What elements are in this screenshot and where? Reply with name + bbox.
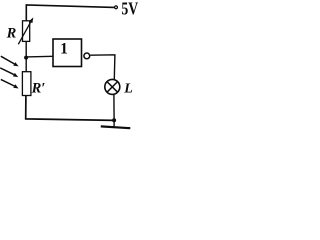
light arrow 1 into R' — [1, 56, 19, 66]
junction B — [112, 118, 116, 122]
wire: R' bottom lead and bottom rail to junction B — [26, 96, 114, 121]
arrow of variable resistor R — [18, 17, 33, 44]
terminal +5V — [115, 6, 118, 9]
svg-text:5V: 5V — [121, 0, 138, 18]
light arrow 3 into R' — [1, 79, 19, 88]
svg-text:L: L — [123, 82, 133, 97]
svg-text:1: 1 — [60, 40, 68, 57]
svg-text:R: R — [6, 26, 17, 42]
resistor R (variable rheostat body) — [23, 21, 30, 42]
wire: lamp L bottom to junction B — [113, 95, 115, 121]
wire: junction A to gate input — [26, 55, 52, 58]
lamp L cross — [107, 82, 118, 93]
wire: U1 output to corner and down to lamp L — [90, 55, 115, 79]
inversion bubble at U1 output — [84, 53, 90, 59]
light arrow 2 into R' — [0, 68, 18, 77]
junction A — [24, 56, 28, 60]
wire: R top lead up and top rail to +5V terminal — [26, 5, 114, 21]
gate U1 box — [53, 39, 82, 67]
svg-text:R′: R′ — [31, 80, 46, 96]
wire: R bottom to junction A to R' top — [25, 41, 27, 71]
ground — [101, 120, 131, 128]
photoresistor R' body — [22, 72, 31, 96]
lamp L (circle) — [105, 79, 120, 94]
